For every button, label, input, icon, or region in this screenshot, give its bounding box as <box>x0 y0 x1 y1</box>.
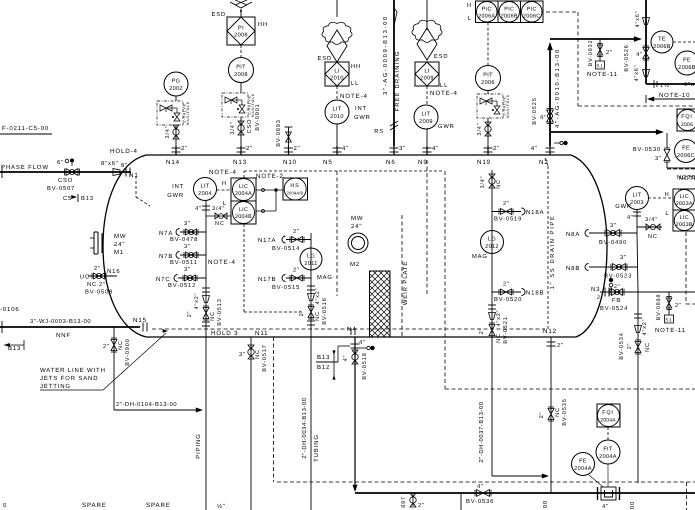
valve BV-0893 on N10 riser <box>288 127 290 146</box>
shutdown level instrument LI 2010 <box>325 62 349 86</box>
svg-text:PI: PI <box>238 26 244 32</box>
boundary dashed around weir drain <box>444 171 446 389</box>
svg-text:2009: 2009 <box>420 76 434 82</box>
svg-text:2004A/B: 2004A/B <box>287 191 304 196</box>
manway M2 <box>348 233 368 253</box>
note boundary dashed top right <box>546 11 578 13</box>
svg-text:BV-0508: BV-0508 <box>85 289 113 296</box>
svg-text:BV-0514: BV-0514 <box>272 245 300 252</box>
svg-text:4": 4" <box>342 145 349 152</box>
callout NOTE-10 <box>648 98 695 100</box>
svg-text:3": 3" <box>184 243 191 250</box>
svg-text:N18B: N18B <box>526 290 544 297</box>
note dashed right boundary <box>685 232 687 304</box>
svg-text:RS: RS <box>374 128 384 135</box>
svg-text:LIC: LIC <box>680 215 689 221</box>
flow totalizer FQI 2006 <box>677 109 695 131</box>
pressure transmitter PIT 2008 <box>229 58 254 83</box>
svg-text:BV-0523: BV-0523 <box>604 273 632 280</box>
svg-text:F-0211-C5-00: F-0211-C5-00 <box>2 125 49 132</box>
svg-text:BV-0515: BV-0515 <box>272 284 300 291</box>
svg-text:MAG: MAG <box>317 274 333 281</box>
vent stem with ball at N2 flange <box>554 142 560 144</box>
svg-text:2008: 2008 <box>234 72 248 78</box>
svg-text:½": ½" <box>217 503 226 510</box>
svg-text:2006B: 2006B <box>653 44 671 50</box>
wire top at N9 column <box>426 0 428 30</box>
svg-text:N1: N1 <box>129 172 139 179</box>
svg-text:BV-0526: BV-0526 <box>624 44 630 71</box>
svg-text:NC: NC <box>496 179 502 189</box>
svg-text:4": 4" <box>359 340 366 346</box>
valve BV-0898 with S1 on N3 branch <box>668 292 670 315</box>
svg-text:WEIR PLATE: WEIR PLATE <box>402 261 409 305</box>
svg-text:3/4": 3/4" <box>164 125 171 138</box>
level transmitter LIT 2010 <box>325 100 349 124</box>
svg-text:FIT: FIT <box>603 447 613 453</box>
leader to FE 2004A <box>589 475 603 487</box>
svg-text:4"x6": 4"x6" <box>635 11 641 28</box>
svg-text:2"-DH-0037-B13-00: 2"-DH-0037-B13-00 <box>478 401 485 462</box>
svg-text:BV-0525: BV-0525 <box>532 97 538 124</box>
svg-text:LL: LL <box>351 81 359 87</box>
svg-text:8": 8" <box>121 162 128 169</box>
valve BV-0525 <box>547 110 554 116</box>
svg-text:MANIFOLD: MANIFOLD <box>186 101 190 125</box>
svg-text:BV-0901: BV-0901 <box>255 103 261 130</box>
drain line 2in-DH-0104-B13-00 <box>114 409 200 411</box>
standpipe drain reducer and valve BV-0513 <box>202 287 210 289</box>
svg-text:4": 4" <box>627 215 634 221</box>
svg-text:LI: LI <box>334 69 339 75</box>
svg-text:4": 4" <box>602 504 609 510</box>
svg-text:H: H <box>222 181 227 187</box>
svg-text:LIC: LIC <box>680 194 689 200</box>
signal wire LIC 2004B junction <box>256 210 276 212</box>
svg-text:3/4": 3/4" <box>229 121 236 134</box>
svg-text:HH: HH <box>258 22 268 28</box>
valve 4in on vent riser <box>643 48 649 54</box>
wire top at N5 column <box>336 0 338 17</box>
svg-text:BV-0516: BV-0516 <box>322 297 328 324</box>
svg-text:4": 4" <box>531 145 538 152</box>
svg-text:N12: N12 <box>543 328 557 335</box>
wire vent to right edge <box>646 83 695 85</box>
svg-text:FREE DRAINING: FREE DRAINING <box>394 50 401 111</box>
2-valve manifold for PG 2002 <box>157 101 183 125</box>
drain line 2in-DH-0037-B13-00 <box>492 475 546 477</box>
svg-text:N7A: N7A <box>159 230 173 237</box>
svg-text:BV-0524: BV-0524 <box>600 305 628 312</box>
svg-text:2": 2" <box>99 281 106 288</box>
flow element FE 2006C <box>675 140 695 163</box>
svg-text:3": 3" <box>399 145 406 152</box>
inlet line 3 phase flow <box>0 171 131 173</box>
svg-text:NC: NC <box>118 340 124 350</box>
svg-text:N17A: N17A <box>258 237 276 244</box>
svg-text:BV-0519: BV-0519 <box>494 216 522 223</box>
svg-text:N10: N10 <box>283 159 297 166</box>
svg-text:2006: 2006 <box>481 80 495 86</box>
flow element FE 2006B <box>675 51 695 75</box>
svg-text:BV-0511: BV-0511 <box>170 259 198 266</box>
svg-text:BV-0900: BV-0900 <box>125 338 131 365</box>
nozzle N6 <box>393 146 395 155</box>
line down from N3 junction with reducer <box>637 292 639 483</box>
valve BV-0534 2in NC <box>635 342 641 348</box>
svg-text:LIT: LIT <box>633 193 642 199</box>
svg-text:NC: NC <box>210 311 216 321</box>
line break RS <box>390 121 398 126</box>
wire PIT 2008 to manifold <box>240 82 242 93</box>
flow totalizer FQI 2004A <box>597 404 620 427</box>
svg-text:FQI: FQI <box>602 410 614 416</box>
internal SS drain pipe dashed <box>545 158 548 166</box>
svg-text:3": 3" <box>184 266 191 273</box>
svg-text:4": 4" <box>343 355 349 362</box>
svg-text:N17B: N17B <box>258 276 276 283</box>
svg-text:N3: N3 <box>591 286 600 293</box>
line LIT 2003 standpipe down <box>637 233 638 292</box>
ESD interlock diamond top <box>230 2 252 8</box>
svg-text:4"x2": 4"x2" <box>194 293 200 310</box>
svg-text:LIC: LIC <box>239 207 248 213</box>
level gauge LG 2011 <box>300 248 322 270</box>
svg-text:GWR: GWR <box>167 192 184 199</box>
svg-text:2003B: 2003B <box>676 222 693 228</box>
orifice flange FE 2004A <box>597 487 599 500</box>
svg-text:1½": 1½" <box>660 83 673 89</box>
internal liquid dashed line HOLD 3 <box>152 328 545 330</box>
svg-text:2009: 2009 <box>419 119 433 125</box>
svg-text:S1: S1 <box>665 318 672 323</box>
svg-text:2011: 2011 <box>304 261 317 267</box>
note dashed bracket above LIC 2003A <box>667 168 695 170</box>
svg-text:2": 2" <box>246 145 253 152</box>
svg-text:HOLD 3: HOLD 3 <box>211 330 238 337</box>
svg-text:CSO: CSO <box>58 177 73 184</box>
svg-text:4": 4" <box>636 52 643 58</box>
svg-text:B13: B13 <box>317 354 330 361</box>
svg-text:2": 2" <box>493 145 500 152</box>
svg-text:N15: N15 <box>133 317 147 324</box>
svg-text:MANIFOLD: MANIFOLD <box>506 94 510 118</box>
svg-text:LIC: LIC <box>239 184 248 190</box>
nozzle N18A line valve BV-0519 <box>492 211 521 213</box>
svg-text:CSO: CSO <box>247 119 253 134</box>
svg-text:M1: M1 <box>114 249 124 256</box>
svg-text:897: 897 <box>401 496 407 508</box>
capillary seal 1-1/2in <box>653 80 655 88</box>
svg-text:B12: B12 <box>317 364 330 371</box>
leader to internal dashed line <box>103 333 166 390</box>
svg-text:2004A: 2004A <box>235 191 252 197</box>
shutdown level instrument LI 2009 <box>415 62 439 86</box>
process line 4in-AG-0010-B13-00 riser <box>549 44 551 146</box>
svg-text:00: 00 <box>542 500 549 508</box>
svg-text:L: L <box>468 16 472 22</box>
svg-text:4"x2": 4"x2" <box>315 288 321 305</box>
vessel left head <box>103 155 146 337</box>
nozzle N9 <box>426 146 428 155</box>
svg-text:2003: 2003 <box>630 200 644 206</box>
svg-text:BV-0536: BV-0536 <box>466 498 494 505</box>
svg-text:N18A: N18A <box>526 209 544 216</box>
ball valve 3/4in below PG manifold <box>175 125 177 146</box>
nozzle N10 <box>288 146 290 155</box>
shutdown instrument PI 2008 <box>227 17 255 45</box>
svg-text:2006B: 2006B <box>501 13 518 19</box>
svg-text:PIC: PIC <box>527 6 537 12</box>
svg-text:2": 2" <box>299 310 305 317</box>
svg-text:24": 24" <box>114 241 125 248</box>
svg-text:00: 00 <box>629 501 636 509</box>
svg-text:2": 2" <box>675 302 682 309</box>
svg-text:NOTE-4: NOTE-4 <box>209 169 237 176</box>
signal dashed TE 2006B right <box>673 41 695 43</box>
svg-text:C5: C5 <box>63 195 72 202</box>
svg-text:3": 3" <box>610 222 617 229</box>
svg-text:N16: N16 <box>107 268 121 275</box>
nozzle N18B line valve BV-0520 <box>492 291 521 293</box>
svg-text:PG: PG <box>172 79 181 85</box>
branch below header <box>460 493 462 510</box>
svg-text:NOTE-11: NOTE-11 <box>587 71 618 78</box>
svg-text:2012: 2012 <box>485 244 499 250</box>
svg-text:2": 2" <box>614 284 621 290</box>
controller PIC 2006C <box>521 1 544 23</box>
svg-text:3/4": 3/4" <box>212 205 225 212</box>
signal wire LIC 2004A to HS <box>256 189 283 191</box>
svg-text:3": 3" <box>184 220 191 227</box>
svg-text:N14: N14 <box>166 159 180 166</box>
signal dashed LIT 2003 to LIC 2003A <box>648 197 672 199</box>
svg-text:2"-DH-0104-B13-00: 2"-DH-0104-B13-00 <box>116 401 177 408</box>
temperature element TE 2006B <box>651 31 673 53</box>
svg-text:INT: INT <box>355 106 367 112</box>
svg-text:ESD: ESD <box>318 55 332 62</box>
dashed internal line from N5 <box>336 171 338 296</box>
svg-text:0: 0 <box>3 502 7 509</box>
svg-text:GWR: GWR <box>354 114 371 121</box>
nozzle N19 <box>487 146 489 155</box>
svg-text:NOTE-10: NOTE-10 <box>659 92 690 99</box>
svg-text:FB: FB <box>612 298 621 304</box>
gauge standpipe LG 2012 <box>491 170 493 476</box>
controller LIC 2004B <box>231 201 256 224</box>
controller LIC 2003A <box>673 189 695 210</box>
svg-text:JETTING: JETTING <box>40 383 71 390</box>
signal dashed PI to PIT 2008 <box>240 45 242 57</box>
svg-text:2: 2 <box>597 295 601 301</box>
svg-text:BV-0517: BV-0517 <box>262 344 268 371</box>
nozzle N13 <box>240 146 242 155</box>
svg-text:1" SS DRAIN PIPE: 1" SS DRAIN PIPE <box>549 215 556 290</box>
svg-text:INT: INT <box>172 184 184 190</box>
svg-text:4": 4" <box>195 206 202 212</box>
svg-text:NC: NC <box>555 407 561 417</box>
svg-text:2": 2" <box>293 267 300 274</box>
vent line 3in-AG-0009-B13-00 <box>393 0 395 146</box>
svg-text:FQI: FQI <box>681 114 693 120</box>
svg-text:2006C: 2006C <box>523 13 540 19</box>
valve 3/4in NC branch <box>206 215 231 217</box>
svg-text:2": 2" <box>94 265 101 272</box>
manway M1 <box>93 232 95 254</box>
svg-text:N13: N13 <box>233 159 247 166</box>
svg-text:2004B: 2004B <box>235 214 252 220</box>
svg-text:M2: M2 <box>350 261 360 268</box>
nozzle N16 line with valve BV-0508 <box>88 275 117 277</box>
svg-text:2006: 2006 <box>681 122 693 128</box>
LG 2011 drain reducer valve BV-0516 <box>307 285 315 287</box>
2-valve manifold for PIT 2008 <box>222 93 248 117</box>
svg-text:NC: NC <box>645 342 651 352</box>
svg-text:BV-0512: BV-0512 <box>168 282 196 289</box>
svg-text:NOTE-4: NOTE-4 <box>340 93 368 100</box>
svg-text:2": 2" <box>293 228 300 235</box>
svg-text:FE: FE <box>683 58 691 64</box>
nozzle N15 flange <box>142 323 144 332</box>
hand switch HS 2004A/B <box>283 178 308 200</box>
flow line to FE 2006C <box>550 131 661 133</box>
nozzle N14 <box>175 146 177 155</box>
svg-text:PIPING: PIPING <box>195 433 202 458</box>
svg-text:LIT: LIT <box>201 184 210 190</box>
svg-text:LG: LG <box>307 254 315 260</box>
water jetting line 3in-WJ-0003-B13-00 <box>0 326 140 328</box>
svg-text:UC: UC <box>80 274 90 281</box>
controller LIC 2003B <box>673 210 695 231</box>
svg-text:FE: FE <box>682 146 690 152</box>
svg-text:HS: HS <box>290 183 299 189</box>
svg-text:BV-0478: BV-0478 <box>170 236 198 243</box>
ball valve 3/4in below PIT 2006 manifold <box>487 118 489 146</box>
svg-text:BV-0513: BV-0513 <box>217 298 223 325</box>
svg-text:LG: LG <box>488 237 496 243</box>
wire LIT 2003 down <box>636 209 638 233</box>
svg-text:TUBING: TUBING <box>313 434 320 462</box>
svg-text:HH: HH <box>351 64 361 70</box>
svg-text:LI: LI <box>424 69 429 75</box>
svg-text:N6: N6 <box>386 159 396 166</box>
drain stub valve 2in <box>412 493 414 506</box>
signal dashed FIT to FQI 2004A <box>607 427 609 440</box>
svg-text:BV-0893: BV-0893 <box>276 119 282 146</box>
svg-text:2": 2" <box>103 343 110 350</box>
svg-text:GWR: GWR <box>615 203 632 210</box>
level transmitter LIT 2009 <box>414 105 438 129</box>
svg-text:NOTE-4: NOTE-4 <box>208 259 236 266</box>
svg-text:2006B: 2006B <box>678 65 695 71</box>
svg-text:ESD: ESD <box>212 11 226 18</box>
svg-text:LIT: LIT <box>422 112 431 118</box>
svg-text:4"x2": 4"x2" <box>642 319 648 336</box>
signal dashed LI 2009 to LIT 2009 <box>426 86 428 104</box>
svg-text:GWR: GWR <box>438 123 455 130</box>
svg-text:PIT: PIT <box>483 73 493 79</box>
dashed internal line at weir <box>401 215 403 337</box>
vent valve 3/4in NC on LG 2012 <box>489 174 495 178</box>
svg-text:3/4": 3/4" <box>645 216 658 223</box>
valve BV-0535 2in NC <box>548 409 554 415</box>
svg-text:N9: N9 <box>418 159 428 166</box>
pressure gauge PG 2002 <box>164 72 188 96</box>
svg-text:2": 2" <box>181 145 188 152</box>
svg-text:PIC: PIC <box>482 6 492 12</box>
svg-text:BV-0490: BV-0490 <box>599 239 627 246</box>
svg-text:2": 2" <box>503 281 510 288</box>
svg-text:2004: 2004 <box>198 191 212 197</box>
svg-text:3"-WJ-0003-B13-00: 3"-WJ-0003-B13-00 <box>30 318 91 325</box>
vent line riser with 4x6 reducer <box>645 0 647 84</box>
svg-text:BV-0530: BV-0530 <box>633 146 661 153</box>
svg-text:3/4": 3/4" <box>480 176 486 189</box>
svg-text:NC: NC <box>87 281 97 288</box>
svg-text:2003A: 2003A <box>676 201 693 207</box>
svg-text:N5: N5 <box>323 159 333 166</box>
svg-text:4": 4" <box>432 145 439 152</box>
svg-text:L: L <box>665 211 669 217</box>
svg-text:2": 2" <box>187 311 193 318</box>
nozzle N5 <box>336 146 338 155</box>
svg-text:SPARE: SPARE <box>82 502 107 509</box>
svg-text:BV-0535: BV-0535 <box>562 398 568 425</box>
pressure transmitter PIT 2006 <box>476 66 501 91</box>
dashed internal line from N9 <box>426 160 428 296</box>
ESD cloud interlock for LI 2010 <box>327 30 347 62</box>
svg-text:B13: B13 <box>8 345 21 352</box>
valve BV-0900 2in NC on jetting branch <box>113 327 115 410</box>
svg-text:2010: 2010 <box>330 76 344 82</box>
svg-text:2002: 2002 <box>169 86 183 92</box>
svg-text:2006A: 2006A <box>478 13 495 19</box>
svg-text:24": 24" <box>351 223 362 230</box>
svg-text:2004A: 2004A <box>599 454 617 460</box>
wire LIT 2010 to N5 <box>336 124 338 146</box>
svg-text:H: H <box>467 3 472 9</box>
wire LIT 2009 to N9 <box>426 129 428 146</box>
svg-text:NC: NC <box>315 311 321 321</box>
vessel V-2001 shell top line <box>146 154 571 156</box>
svg-text:N7C: N7C <box>156 276 171 283</box>
ball valve 3/4in below PIT 2008 manifold <box>240 117 242 146</box>
svg-text:NC: NC <box>255 349 261 359</box>
ball valve CSO BV-0507 6in <box>66 169 72 176</box>
svg-text:NNF: NNF <box>56 332 71 339</box>
drain header line <box>355 492 695 494</box>
svg-text:2": 2" <box>294 145 301 152</box>
svg-text:MW: MW <box>114 233 126 240</box>
svg-text:2010: 2010 <box>330 114 344 120</box>
standpipe LIT 2004 down <box>205 200 207 510</box>
svg-text:BV-0898: BV-0898 <box>656 294 662 321</box>
vessel right head <box>571 155 607 337</box>
svg-text:8"x6": 8"x6" <box>101 160 119 167</box>
wire to PI 2008 <box>240 9 242 17</box>
signal dashed PIC 2006A to PIT 2006 <box>487 23 489 66</box>
svg-text:2": 2" <box>627 343 633 350</box>
vessel shell bottom line <box>146 336 576 338</box>
wire PIT 2006 to manifold <box>487 90 489 94</box>
svg-text:BV-0520: BV-0520 <box>494 296 522 303</box>
ESD cloud interlock for LI 2009 <box>417 28 437 60</box>
svg-text:6"x: 6"x <box>684 81 695 88</box>
signal dashed NOTE-2 line <box>243 171 245 178</box>
valve BV-0530 3in <box>664 150 670 156</box>
valve BV-0536 4in <box>477 490 484 497</box>
svg-text:2": 2" <box>418 502 425 509</box>
